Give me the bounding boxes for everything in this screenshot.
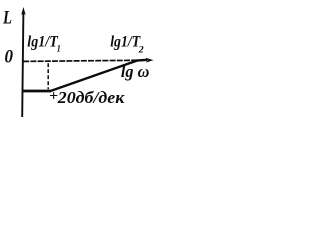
plus sign of slope annotation xyxy=(49,88,58,104)
vertical L axis shaft xyxy=(22,12,23,117)
label lg omega xyxy=(121,62,149,81)
slope annotation 20db/dek xyxy=(57,88,125,107)
horizontal lg-omega axis (dashed) xyxy=(23,60,146,61)
svg-text:lg1/T: lg1/T xyxy=(110,33,141,50)
LACh horizontal low-frequency segment xyxy=(23,90,51,93)
label lg1/T1 xyxy=(27,34,61,55)
LACh +20dB/dec sloped segment xyxy=(51,60,148,91)
label lg1/T2 xyxy=(110,33,144,55)
horizontal axis arrowhead xyxy=(146,58,154,63)
svg-text:20дб/дек: 20дб/дек xyxy=(57,88,125,107)
svg-text:L: L xyxy=(2,8,12,29)
svg-text:+: + xyxy=(49,88,58,104)
origin label 0 xyxy=(5,47,14,68)
vertical axis arrowhead xyxy=(21,7,26,15)
svg-text:1: 1 xyxy=(57,45,61,55)
dashed break-frequency line at lg1/T1 xyxy=(47,63,49,89)
svg-text:lg1/T: lg1/T xyxy=(27,34,59,51)
svg-text:0: 0 xyxy=(5,47,14,68)
L axis label xyxy=(2,8,12,29)
svg-text:2: 2 xyxy=(138,46,144,56)
